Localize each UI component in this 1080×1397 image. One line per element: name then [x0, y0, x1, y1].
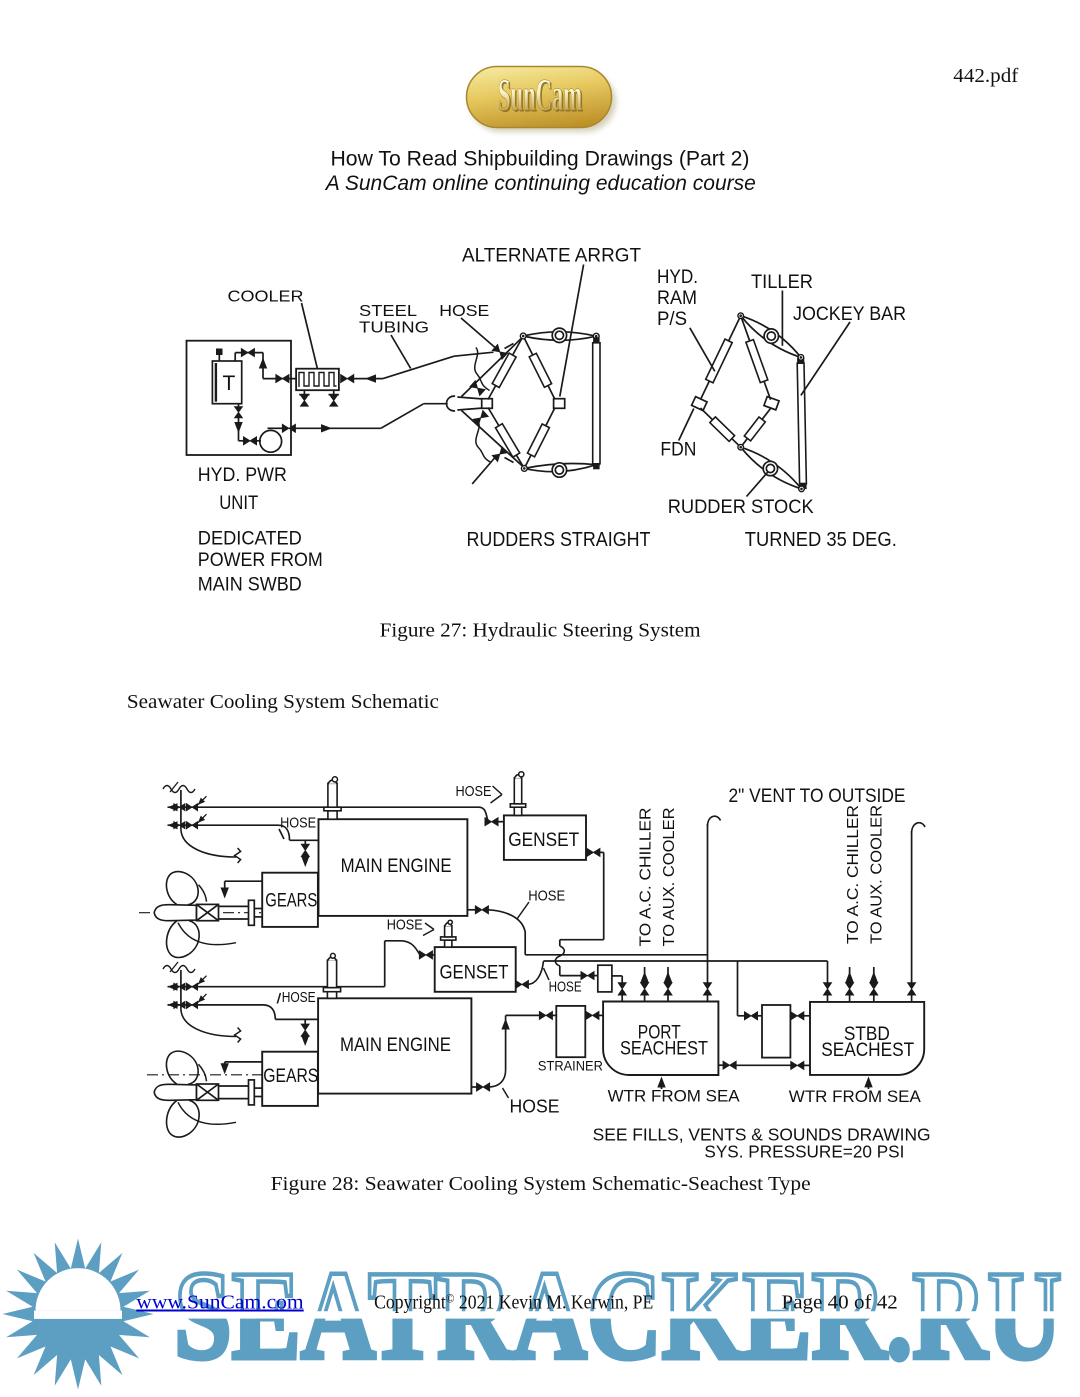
label DEDICATED POWER FROM MAIN SWBD [198, 529, 323, 596]
svg-text:UNIT: UNIT [219, 493, 258, 514]
label HOSE stbd line2 with leader [277, 989, 315, 1006]
svg-text:HOSE: HOSE [510, 1097, 560, 1117]
rudder straight: hose valve lower with leader [472, 447, 513, 484]
label HYD PWR UNIT [198, 465, 287, 514]
genset 1 box [504, 815, 586, 860]
svg-text:SEACHEST: SEACHEST [821, 1040, 914, 1061]
svg-text:GENSET: GENSET [440, 963, 509, 984]
seachest crossover line with valves [718, 1061, 810, 1069]
svg-text:STRAINER: STRAINER [538, 1058, 603, 1074]
svg-text:HOSE: HOSE [528, 887, 565, 904]
valve cooler outlet [341, 375, 354, 383]
lower raw water bus [544, 960, 828, 962]
svg-text:TO AUX. COOLER: TO AUX. COOLER [868, 805, 885, 944]
port wtr from sea arrow [657, 1077, 665, 1090]
rudder straight: pivot pins [520, 333, 599, 471]
svg-text:SYS. PRESSURE=20 PSI: SYS. PRESSURE=20 PSI [704, 1141, 904, 1161]
cooler box with coil [296, 369, 339, 391]
genset 2 inlet valve [419, 951, 432, 959]
rudder straight: hose valve mid-upper [470, 381, 485, 396]
svg-text:A SunCam online continuing edu: A SunCam online continuing education cou… [324, 172, 756, 195]
svg-text:STEEL: STEEL [359, 303, 417, 320]
svg-text:Figure 28: Seawater Cooling Sy: Figure 28: Seawater Cooling System Schem… [271, 1173, 811, 1195]
label JOCKEY BAR with leader [793, 304, 906, 395]
port manifold sea valves [163, 782, 241, 863]
svg-text:HOSE: HOSE [282, 989, 316, 1006]
svg-text:RUDDER STOCK: RUDDER STOCK [668, 497, 814, 518]
svg-text:T: T [223, 372, 236, 395]
watermark sun disk [34, 1270, 122, 1358]
svg-text:MAIN SWBD: MAIN SWBD [198, 575, 302, 596]
cooler drain valve 2 [329, 390, 339, 406]
engine 2 outlet valve and hose to strainer riser [471, 1015, 509, 1091]
SunCam logo pill [467, 67, 617, 133]
svg-text:HOSE: HOSE [280, 815, 316, 832]
label HOSE fig27 with leader [439, 303, 498, 351]
main engine 1 box [319, 819, 468, 916]
svg-text:Copyright© 2021 Kevin M. Kerwi: Copyright© 2021 Kevin M. Kerwin, PE [374, 1291, 653, 1314]
rudder turned: bottom rudder stock [763, 461, 777, 475]
rudder turned: pivot pins [738, 313, 804, 492]
genset 1 outlet valve and drop pipe [555, 848, 603, 975]
branch to gears 2 with valve and arrow [301, 1019, 309, 1046]
rudder straight: hyd cylinder upper-right [523, 336, 555, 400]
svg-text:How To Read Shipbuilding Drawi: How To Read Shipbuilding Drawings (Part … [331, 146, 750, 170]
port seachest column C valve with arrow [664, 967, 672, 1002]
stbd feed drop from bus [738, 961, 811, 1020]
svg-text:HYD.: HYD. [657, 267, 698, 288]
svg-text:GENSET: GENSET [508, 830, 579, 851]
tank vent stem [217, 349, 223, 361]
rudder straight: hose valve upper [492, 344, 513, 360]
stbd seachest column A drop with valve [823, 961, 831, 1002]
rudder straight: upper hull line [462, 339, 521, 397]
upper raw water bus [525, 954, 707, 956]
rudder turned: foundation block right [764, 397, 779, 410]
stbd seachest column C valve with arrow [870, 967, 878, 1002]
svg-text:HOSE: HOSE [549, 979, 582, 996]
label PORT SEACHEST [620, 1022, 708, 1059]
valve cooler inlet [276, 375, 289, 383]
stbd propeller and shaft [147, 1051, 263, 1137]
stbd sea line 1 riser to genset 2 [168, 941, 435, 987]
rudder straight: upper break wavy line [475, 348, 490, 391]
svg-text:MAIN ENGINE: MAIN ENGINE [341, 856, 452, 877]
port sea line 1 to genset [168, 807, 504, 822]
svg-text:GEARS: GEARS [265, 891, 317, 912]
valve on tank top line [241, 349, 254, 357]
svg-text:P/S: P/S [657, 309, 687, 330]
label HOSE engine1 outlet with leader [517, 887, 565, 919]
label TILLER with leader [751, 272, 813, 346]
label HOSE port line2 with leader [279, 815, 316, 840]
rudder straight: top tiller [523, 332, 596, 341]
port seachest column A valve [618, 983, 626, 1002]
rudder straight: top rudder stock [552, 328, 566, 342]
rudder straight: foundation block right [554, 399, 565, 409]
pipe down to cooler line with up arrow [259, 353, 296, 379]
svg-text:HOSE: HOSE [439, 303, 489, 320]
label ALTERNATE ARRGT with leader [462, 246, 641, 397]
label FDN with leader [660, 409, 696, 461]
svg-text:RAM: RAM [657, 288, 697, 309]
tank bottom valve and pipe to pump [234, 404, 244, 441]
svg-text:TILLER: TILLER [751, 272, 813, 293]
hyd pwr unit enclosure box [187, 341, 292, 455]
label HOSE engine2 outlet with leader [503, 1088, 560, 1117]
gears 1 box [262, 873, 318, 927]
svg-text:SEACHEST: SEACHEST [620, 1039, 708, 1060]
rudder turned: bottom tiller [741, 447, 802, 489]
genset 1 inlet valve [485, 818, 498, 826]
stbd seachest box [810, 1002, 924, 1075]
svg-text:DEDICATED: DEDICATED [198, 529, 302, 550]
rudder straight: lower break wavy line [476, 421, 491, 463]
stbd strainer box [762, 1005, 790, 1058]
port seachest box [603, 1002, 718, 1076]
stbd manifold sea valves [163, 962, 241, 1043]
genset 2 outlet valve and hose to bus [515, 961, 543, 989]
branch to gears 1 with valve and arrow [301, 840, 309, 867]
engine 1 outlet valve and hose down to bus [467, 906, 525, 955]
svg-text:Page 40 of 42: Page 40 of 42 [782, 1292, 898, 1314]
svg-text:Seawater Cooling System Schema: Seawater Cooling System Schematic [127, 691, 439, 713]
label RUDDER STOCK with leader [668, 472, 814, 519]
svg-text:2" VENT TO OUTSIDE: 2" VENT TO OUTSIDE [729, 786, 906, 807]
rudder turned: top rudder stock [764, 329, 778, 343]
label HOSE genset1 inlet with arrow [456, 783, 503, 803]
label HOSE genset2 inlet with arrow [387, 917, 434, 936]
reservoir tank T [212, 361, 241, 404]
port seachest column B valve with arrow [640, 967, 648, 1002]
svg-text:FDN: FDN [660, 440, 696, 461]
svg-text:442.pdf: 442.pdf [953, 65, 1018, 87]
svg-text:HYD. PWR: HYD. PWR [198, 465, 287, 486]
svg-text:WTR FROM SEA: WTR FROM SEA [608, 1087, 741, 1106]
genset 2 box [435, 947, 516, 992]
pump discharge valve [268, 427, 284, 429]
label COOLER with leader [228, 289, 318, 369]
port strainer box [556, 1006, 585, 1057]
rudder straight: bottom tiller [524, 463, 596, 471]
port vent pipe with hook and valve [703, 816, 720, 1001]
svg-text:GEARS: GEARS [263, 1066, 318, 1087]
steel tubing lower run with flow arrow [295, 404, 448, 433]
svg-text:POWER FROM: POWER FROM [198, 550, 323, 571]
main engine 2 exhaust stack [323, 953, 340, 998]
port strainer line with valves [506, 1011, 603, 1019]
svg-text:COOLER: COOLER [228, 289, 304, 306]
watermark seatracker letters [174, 1246, 1062, 1386]
main engine 1 exhaust stack [324, 777, 341, 819]
rudder straight: hull arc left vertex [446, 396, 455, 411]
stbd sea line 2 to main engine 2 [168, 1005, 319, 1020]
cooler drain valve 1 [299, 390, 309, 406]
rudder straight: links arc to foundation [457, 397, 481, 410]
port propeller and shaft [139, 872, 263, 958]
watermark sun rays [3, 1239, 154, 1390]
svg-text:TUBING: TUBING [359, 320, 429, 337]
label STBD SEACHEST [821, 1024, 914, 1061]
pipe tank top to valve [235, 353, 263, 361]
rudder turned: foundation block left [692, 397, 707, 411]
svg-text:HOSE: HOSE [387, 917, 423, 934]
steel tubing upper run with flow arrow [354, 352, 494, 383]
genset 1 exhaust stack [510, 772, 525, 816]
svg-text:TO A.C. CHILLER: TO A.C. CHILLER [638, 808, 655, 947]
rudder straight: foundation block left [482, 399, 493, 409]
rudder straight: jockey bar [593, 338, 600, 469]
port sea line 2 to main engine [168, 825, 319, 840]
stbd vent pipe with hook and valve [908, 823, 926, 1002]
rudder straight: hose valve mid-lower [473, 410, 488, 425]
svg-text:RUDDERS STRAIGHT: RUDDERS STRAIGHT [467, 529, 651, 551]
svg-text:WTR FROM SEA: WTR FROM SEA [789, 1087, 922, 1106]
rudder straight: bottom rudder stock [552, 463, 566, 477]
pump circle [256, 430, 281, 452]
svg-text:www.SunCam.com: www.SunCam.com [136, 1292, 304, 1314]
rudder turned: top tiller [741, 316, 801, 358]
rudder turned: hyd cylinder lower-left [701, 408, 741, 447]
rudder straight: lower hull line [462, 411, 522, 466]
expansion tank small box with valve [581, 965, 622, 992]
svg-text:TO AUX. COOLER: TO AUX. COOLER [661, 808, 678, 947]
gears 2 box [262, 1052, 318, 1106]
svg-text:ALTERNATE ARRGT: ALTERNATE ARRGT [462, 246, 641, 267]
rudder straight: hyd cylinder upper-left [488, 336, 523, 400]
svg-text:MAIN ENGINE: MAIN ENGINE [340, 1035, 451, 1056]
rudder turned: jockey bar [797, 358, 806, 489]
label HOSE genset2 outlet with leader [544, 968, 582, 996]
svg-text:Figure 27: Hydraulic Steering: Figure 27: Hydraulic Steering System [380, 620, 701, 642]
svg-text:TO A.C. CHILLER: TO A.C. CHILLER [845, 805, 862, 944]
rudder straight: hyd cylinder lower-left [488, 408, 524, 469]
stbd wtr from sea arrow [864, 1076, 872, 1089]
rudder turned: hyd cylinder upper-left [701, 316, 741, 400]
svg-text:SunCam: SunCam [498, 69, 582, 120]
svg-text:HOSE: HOSE [456, 783, 492, 800]
rudder straight: hyd cylinder lower-right [524, 408, 555, 469]
rudder turned: hyd cylinder upper-right [741, 316, 771, 400]
label HYD RAM P/S with leader [657, 267, 715, 371]
rudder turned: hyd cylinder lower-right [741, 408, 772, 448]
label STEEL TUBING with leader [359, 303, 429, 369]
main engine 2 box [318, 998, 471, 1093]
genset 2 exhaust stack [441, 920, 456, 947]
stbd seachest column B valve with arrow [845, 967, 853, 1002]
pump suction valve [243, 437, 256, 445]
svg-text:TURNED 35 DEG.: TURNED 35 DEG. [745, 529, 897, 551]
